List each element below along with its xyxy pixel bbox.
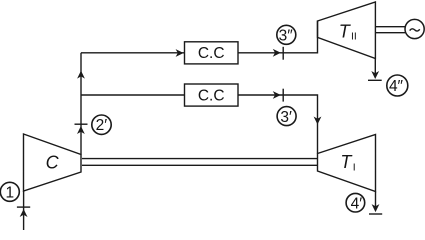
svg-text:3′: 3′: [280, 109, 292, 126]
svg-text:C.C: C.C: [198, 87, 225, 104]
svg-text:II: II: [351, 30, 357, 42]
svg-text:2′: 2′: [96, 117, 108, 134]
svg-text:3″: 3″: [279, 27, 294, 44]
svg-text:C: C: [46, 153, 60, 173]
svg-text:4″: 4″: [389, 78, 404, 95]
svg-text:4′: 4′: [351, 195, 363, 212]
svg-text:C.C: C.C: [198, 45, 225, 62]
svg-text:I: I: [353, 162, 356, 174]
svg-text:1: 1: [5, 184, 14, 201]
